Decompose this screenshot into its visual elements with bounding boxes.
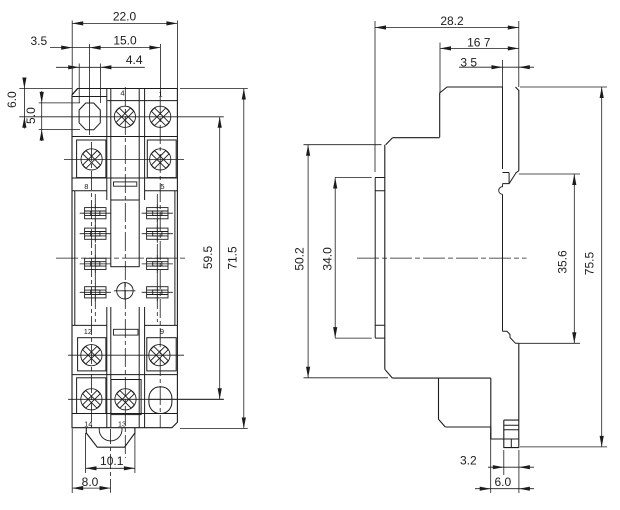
arrows 15.0 — [90, 46, 101, 50]
screw terminal 13 — [111, 385, 140, 414]
dim 34.0 refs — [335, 178, 372, 339]
svg-text:4.4: 4.4 — [126, 53, 143, 67]
screw terminal 8 — [77, 145, 106, 174]
contact slot B-right — [142, 225, 173, 243]
contact slot A-right — [142, 204, 173, 222]
terminal cells top line — [107, 100, 178, 102]
arrows 28.2 — [375, 25, 386, 29]
rail clip arc bump — [499, 184, 503, 195]
screw terminal 9 — [145, 341, 174, 370]
front view body outline — [72, 89, 177, 428]
screw terminal 14 — [77, 385, 106, 414]
dim 71.5 line — [180, 89, 248, 429]
waist step line — [72, 190, 177, 192]
lower back wall — [502, 194, 504, 331]
svg-text:5.0: 5.0 — [24, 107, 38, 124]
din rail slot left wall — [503, 87, 519, 184]
svg-text:4: 4 — [120, 89, 124, 98]
svg-text:6.0: 6.0 — [494, 475, 511, 489]
svg-text:3.5: 3.5 — [30, 34, 47, 48]
arrows 34.0 — [333, 178, 337, 189]
arrows 75.5 — [600, 87, 604, 98]
center channel wall right inner — [138, 89, 140, 428]
center channel wall left inner — [110, 89, 112, 428]
arrows 8.0 — [72, 486, 83, 490]
svg-text:15.0: 15.0 — [113, 34, 137, 48]
contact slot C-left — [80, 255, 111, 273]
dim 59.5 line — [149, 117, 224, 400]
dim 22.0 extension lines — [72, 21, 177, 95]
arrows 3.2 — [493, 465, 504, 469]
row2 right terminal block — [147, 140, 176, 178]
arrows 6.0 — [22, 78, 26, 89]
svg-text:35.6: 35.6 — [555, 250, 569, 274]
row4 screw centerline — [68, 398, 224, 400]
arrows 35.6 — [572, 174, 576, 185]
contact slot B-left — [80, 225, 111, 243]
svg-text:10.1: 10.1 — [100, 454, 124, 468]
waist right slots centerline — [156, 194, 158, 322]
back face lower — [504, 343, 519, 447]
waist inner wall left — [74, 191, 76, 326]
keyhole cell shelf line — [72, 96, 107, 98]
center channel wall left outer — [106, 89, 108, 428]
row1 screw centerline — [19, 116, 224, 118]
side view centerline — [357, 257, 527, 259]
dim 6.0 left refs — [19, 78, 72, 129]
row2 bottom line — [72, 177, 177, 179]
arrows 16.7 — [440, 46, 451, 50]
dim 5.0 left refs — [39, 91, 80, 141]
svg-text:1: 1 — [159, 90, 163, 99]
dim 75.5 refs — [520, 87, 607, 447]
row4 bottom line — [72, 413, 177, 415]
bottom tab spring arc — [99, 428, 122, 441]
dim 16.7 refs — [440, 43, 519, 93]
arrows 4.4 — [68, 65, 79, 69]
dim 35.6 refs — [519, 174, 580, 343]
contact slot D-left — [80, 283, 111, 301]
contact slot D-right — [142, 283, 173, 301]
svg-text:28.2: 28.2 — [440, 14, 464, 28]
row2 left terminal block — [77, 140, 106, 178]
svg-text:13: 13 — [118, 420, 126, 429]
row2 screw centerline — [64, 158, 184, 160]
dim 22.0 line — [72, 22, 177, 24]
dim 15.0 / 3.5 extension lines — [90, 44, 161, 103]
svg-text:8.0: 8.0 — [82, 475, 99, 489]
screw terminal 4 — [110, 102, 139, 131]
svg-text:8: 8 — [84, 182, 88, 191]
relay window rectangle — [111, 200, 139, 267]
front terminal strip — [375, 178, 385, 339]
svg-text:5: 5 — [160, 182, 164, 191]
center circle lower middle — [117, 283, 133, 299]
right column centerline — [159, 96, 161, 428]
dim 4.4 extension lines — [79, 64, 100, 104]
bottom tab centerline — [110, 429, 112, 493]
row3 screw centerline — [68, 354, 184, 356]
latch nub — [503, 331, 519, 343]
side view outline upper — [385, 87, 503, 439]
waist inner wall right — [174, 191, 176, 326]
bottom-right keyhole — [149, 387, 172, 414]
upper center slot plate — [114, 182, 137, 186]
arrows 10.1 — [86, 466, 97, 470]
dim 4.4 line — [56, 66, 145, 68]
mid column centerline — [124, 87, 126, 458]
screw terminal 5 — [146, 145, 175, 174]
arrows 59.5 — [218, 117, 222, 128]
contact slot C-right — [142, 255, 173, 273]
svg-text:71.5: 71.5 — [225, 246, 239, 270]
dim 3.5 right refs — [459, 60, 534, 87]
bottom mounting tab outline — [86, 428, 135, 448]
svg-text:3.2: 3.2 — [460, 454, 477, 468]
contact slot A-left — [80, 204, 111, 222]
arrows 71.5 — [242, 89, 246, 100]
svg-text:34.0: 34.0 — [321, 247, 335, 271]
keyhole vertical centerline — [89, 99, 91, 135]
lower center slot plate — [114, 329, 139, 335]
svg-text:6.0: 6.0 — [5, 91, 19, 108]
dim 10.1 refs — [86, 433, 135, 473]
svg-text:14: 14 — [84, 420, 92, 429]
svg-text:3 5: 3 5 — [460, 55, 477, 69]
row4 mid terminal block — [111, 380, 141, 415]
horizontal main centerline — [56, 257, 187, 259]
arrows 22.0 — [72, 21, 83, 25]
dim 6.0 right refs — [475, 433, 534, 493]
svg-text:22.0: 22.0 — [113, 10, 137, 24]
svg-text:59.5: 59.5 — [201, 245, 215, 269]
svg-text:16 7: 16 7 — [467, 35, 491, 49]
screw terminal 1 — [146, 102, 175, 131]
arrows 3.5 left — [61, 46, 72, 50]
dim 3.2 refs — [488, 450, 534, 493]
waist left slots centerline — [94, 194, 96, 322]
dim 28.2 refs — [375, 21, 519, 172]
arrows 3.5 right — [492, 65, 503, 69]
foot step — [491, 425, 519, 447]
svg-text:12: 12 — [84, 327, 92, 336]
svg-text:50.2: 50.2 — [293, 247, 307, 271]
waist end line — [72, 324, 177, 326]
svg-text:9: 9 — [160, 327, 164, 336]
row3/row4 boundary line — [72, 374, 177, 376]
arrows 5.0 — [40, 92, 44, 103]
left column centerline — [91, 142, 93, 428]
row1/row2 boundary line — [72, 136, 177, 138]
row4 left terminal block — [77, 378, 106, 414]
back face upper — [516, 87, 519, 171]
center circle crosshair — [114, 282, 135, 299]
screw terminal 12 — [77, 341, 106, 370]
dim 8.0 refs — [72, 429, 110, 494]
arrows 50.2 — [306, 145, 310, 156]
svg-text:75.5: 75.5 — [583, 251, 597, 275]
row3 left terminal block — [78, 338, 106, 371]
dim 15.0 / 3.5 line — [50, 47, 160, 49]
mounting keyhole top-left — [79, 103, 100, 130]
dim 50.2 refs — [304, 145, 389, 378]
center channel wall right outer — [144, 89, 146, 428]
top-left chamfer detail — [72, 89, 78, 95]
arrows 6.0 right — [480, 487, 491, 491]
row3 right terminal block — [147, 338, 176, 371]
